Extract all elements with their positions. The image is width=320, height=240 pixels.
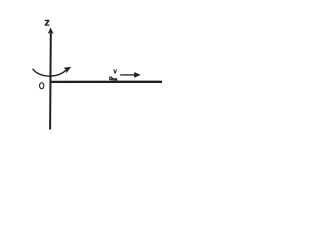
curved rotation arrow arc <box>33 69 67 76</box>
z axis line <box>49 33 52 130</box>
z axis arrowhead <box>48 27 54 34</box>
velocity arrow shaft <box>120 74 135 76</box>
label z <box>45 20 50 26</box>
bug on rod <box>110 77 118 81</box>
label O <box>40 83 44 89</box>
label v <box>113 69 117 73</box>
velocity arrowhead <box>134 72 140 78</box>
curved rotation arrowhead <box>64 67 72 74</box>
horizontal rod <box>50 81 162 83</box>
